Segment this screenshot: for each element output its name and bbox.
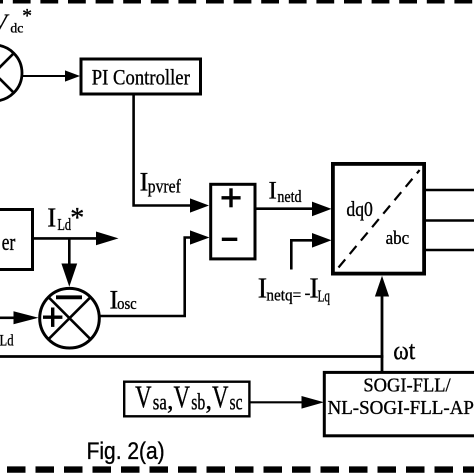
- svg-text:abc: abc: [386, 228, 410, 249]
- wire: X1 to PI controller with arrow: [22, 70, 80, 81]
- svg-text:dq0: dq0: [346, 197, 373, 221]
- node Inetd label: [269, 177, 303, 206]
- svg-text:I: I: [269, 177, 277, 204]
- node Inetq = -ILq label: [258, 274, 330, 306]
- Vsa Vsb Vsc source block: [124, 379, 249, 417]
- wire: Vsa block to SOGI block with arrow: [250, 396, 325, 409]
- svg-text:er: er: [2, 230, 16, 256]
- node Vdc* label: [0, 6, 32, 36]
- node Ipvref label: [140, 168, 182, 198]
- svg-text:V: V: [212, 379, 229, 415]
- current controller block (cropped at left edge, text ends in "er"): [0, 210, 33, 270]
- svg-text:ωt: ωt: [393, 336, 416, 365]
- caption Fig. 2(a): [87, 438, 165, 465]
- svg-text:netq=: netq=: [266, 286, 301, 305]
- wire: abc output line a: [426, 189, 474, 192]
- dashed bottom border of figure: [7, 466, 474, 472]
- node Iosc label: [110, 285, 138, 314]
- summing block S1 (plus minus): [211, 184, 255, 259]
- svg-text:Fig. 2(a): Fig. 2(a): [87, 438, 165, 465]
- svg-text:NL-SOGI-FLL-APF: NL-SOGI-FLL-APF: [328, 398, 474, 419]
- summing junction X2 (ILd - Iosc): [40, 288, 100, 348]
- PI controller block: [81, 59, 201, 94]
- svg-text:*: *: [70, 203, 84, 234]
- SOGI-FLL block (cropped at right edge): [324, 372, 474, 435]
- wire: Inetq input up and right into dq0 block with arrow: [291, 233, 331, 270]
- wire: long omega-t line from left edge to vertical riser: [0, 355, 383, 358]
- svg-text:sc: sc: [230, 390, 243, 415]
- dashed top border of figure: [0, 0, 474, 4]
- wire: abc output line c: [426, 249, 474, 252]
- wire: omega-t riser from SOGI block top into dq0 bottom with arrow: [375, 276, 389, 373]
- summing junction X1 (Vdc comparison, cropped at left edge): [0, 45, 22, 101]
- svg-text:netd: netd: [277, 187, 302, 206]
- svg-text:V: V: [135, 379, 152, 415]
- svg-text:*: *: [22, 6, 32, 27]
- svg-text:Ld: Ld: [0, 333, 14, 350]
- wire: PI controller down and right to summing block plus input: [134, 96, 209, 213]
- wire: abc output line b: [426, 219, 474, 222]
- svg-text:sb: sb: [191, 390, 205, 415]
- wire: controller output ILd* with arrow ending right: [33, 232, 119, 246]
- wire: branch from ILd* down into summing junction X2: [61, 238, 77, 286]
- node ILd* label: [47, 203, 84, 234]
- node ILd label (cropped at left edge): [0, 323, 14, 350]
- wire: S1 output Inetd into dq0 block with arrow: [255, 202, 332, 217]
- wire: X2 output Iosc right, up, into summing block minus input: [99, 230, 210, 316]
- svg-text:PI Controller: PI Controller: [92, 65, 190, 90]
- svg-text:osc: osc: [117, 294, 137, 313]
- svg-text:Lq: Lq: [318, 287, 331, 306]
- dq0 to abc transform block: [333, 164, 424, 274]
- svg-text:V: V: [174, 379, 191, 415]
- wire: ILd input arrow into X2 from left edge: [0, 311, 39, 324]
- svg-text:pvref: pvref: [148, 176, 182, 197]
- svg-text:SOGI-FLL/: SOGI-FLL/: [363, 375, 451, 396]
- node omega-t label: [393, 336, 416, 365]
- svg-text:sa: sa: [153, 390, 167, 415]
- svg-text:I: I: [47, 203, 56, 233]
